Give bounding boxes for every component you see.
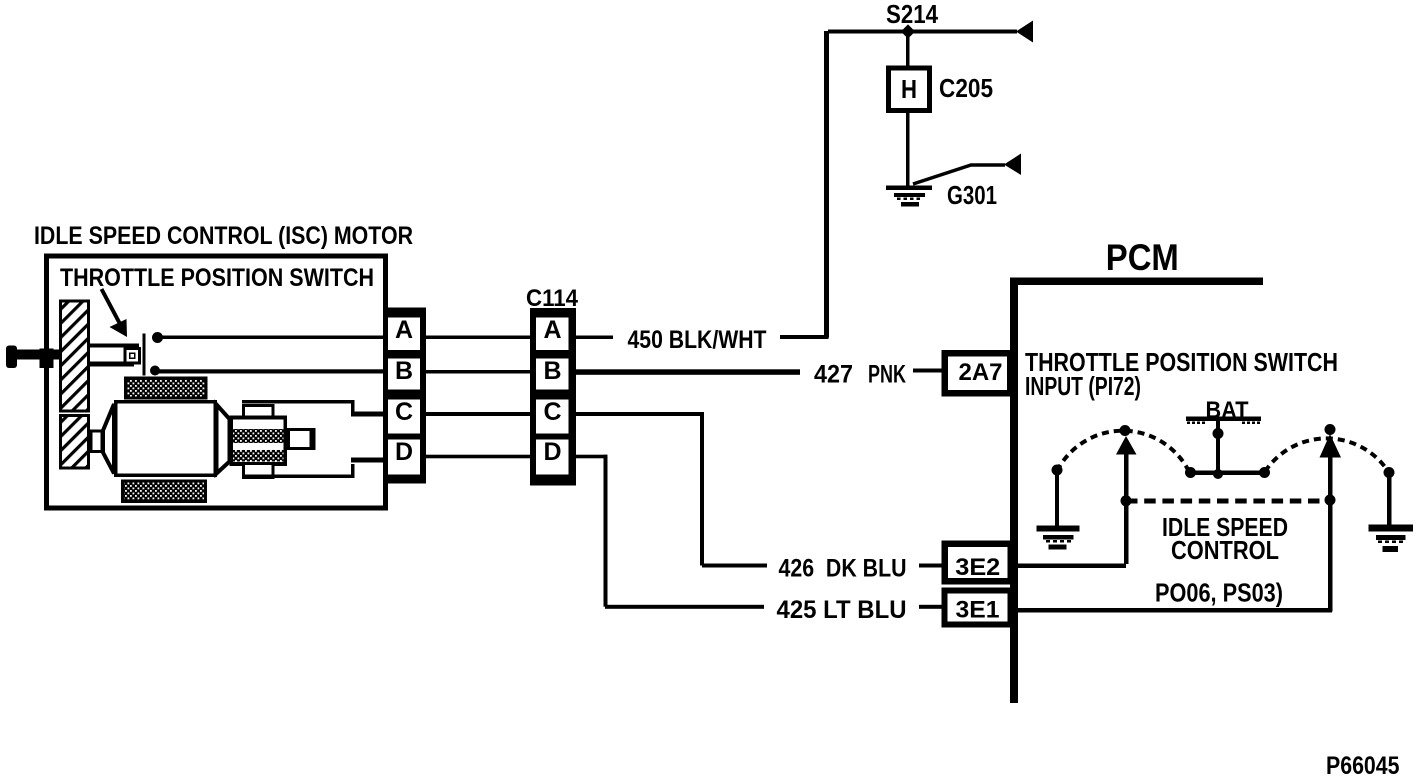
svg-text:IDLE SPEED CONTROL (ISC) MOTOR: IDLE SPEED CONTROL (ISC) MOTOR bbox=[34, 222, 413, 250]
svg-text:C: C bbox=[543, 398, 561, 426]
svg-text:427: 427 bbox=[814, 361, 853, 389]
svg-text:G301: G301 bbox=[947, 180, 997, 210]
svg-text:PNK: PNK bbox=[868, 361, 906, 389]
svg-text:P66045: P66045 bbox=[1326, 752, 1400, 780]
svg-text:C114: C114 bbox=[526, 285, 579, 312]
svg-text:INPUT (PI72): INPUT (PI72) bbox=[1025, 371, 1141, 401]
svg-text:S214: S214 bbox=[886, 0, 938, 29]
svg-text:C205: C205 bbox=[939, 73, 993, 103]
svg-text:B: B bbox=[395, 357, 413, 385]
svg-text:3E1: 3E1 bbox=[956, 597, 1000, 624]
svg-text:3E2: 3E2 bbox=[955, 554, 1000, 581]
svg-text:C: C bbox=[395, 398, 413, 426]
svg-text:H: H bbox=[901, 74, 917, 104]
svg-text:CONTROL: CONTROL bbox=[1171, 535, 1279, 565]
svg-text:A: A bbox=[395, 316, 413, 344]
svg-text:D: D bbox=[395, 438, 413, 466]
svg-text:426 DK BLU: 426 DK BLU bbox=[779, 555, 907, 583]
svg-text:425 LT BLU: 425 LT BLU bbox=[777, 596, 907, 624]
svg-text:A: A bbox=[543, 316, 561, 344]
svg-text:PCM: PCM bbox=[1106, 237, 1179, 278]
svg-text:450 BLK/WHT: 450 BLK/WHT bbox=[628, 326, 767, 354]
svg-text:THROTTLE POSITION SWITCH: THROTTLE POSITION SWITCH bbox=[60, 264, 374, 292]
svg-text:D: D bbox=[543, 438, 561, 466]
svg-text:2A7: 2A7 bbox=[959, 359, 1003, 386]
svg-text:B: B bbox=[543, 357, 561, 385]
svg-text:PO06, PS03): PO06, PS03) bbox=[1155, 578, 1283, 608]
